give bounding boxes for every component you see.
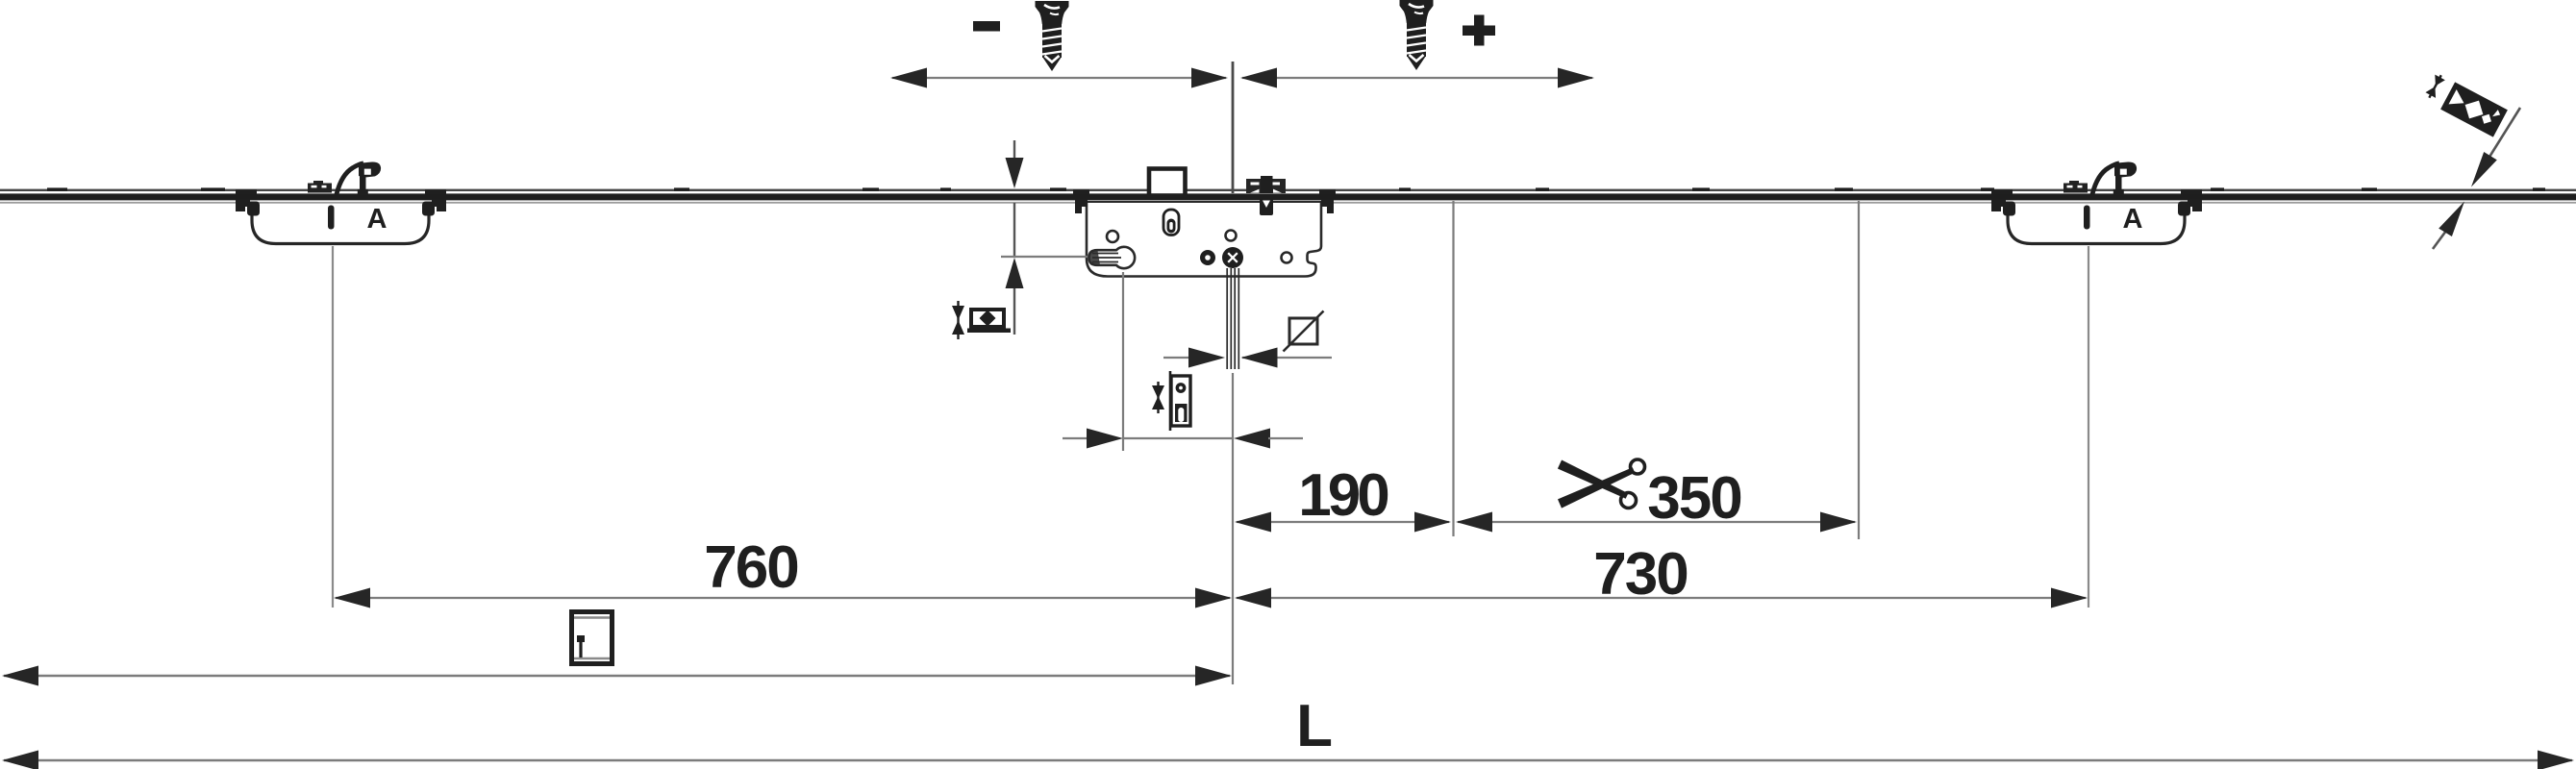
spindle bars xyxy=(1227,268,1238,369)
square tab above rail xyxy=(1149,169,1186,196)
spindle hub xyxy=(1222,247,1243,268)
small hole top-right xyxy=(1226,231,1237,241)
center reference line top xyxy=(1232,62,1235,193)
svg-text:190: 190 xyxy=(1298,462,1388,529)
rail bottom edge line xyxy=(0,202,2576,204)
plus sign xyxy=(1463,15,1495,46)
up arrow to cylinder line xyxy=(1013,203,1015,256)
svg-text:760: 760 xyxy=(704,534,797,601)
cylinder hole xyxy=(1089,247,1136,268)
right claw xyxy=(1321,199,1334,213)
minus sign xyxy=(973,21,1000,32)
rail segment joints xyxy=(47,187,2545,190)
spindle centerline lower xyxy=(1232,373,1234,684)
case outline xyxy=(1087,202,1321,277)
screw right xyxy=(1400,0,1434,70)
svg-text:730: 730 xyxy=(1593,541,1687,608)
ribbed block above rail xyxy=(1246,179,1286,193)
cylinder extension line xyxy=(1122,272,1124,451)
dim line minus xyxy=(892,77,1226,79)
down arrow to rail xyxy=(1013,140,1015,163)
claw nubs above rail xyxy=(1073,189,1089,194)
tab below rail with V notch xyxy=(1260,199,1273,215)
dim line plus xyxy=(1242,77,1592,79)
inner slot xyxy=(1163,210,1179,236)
cylinder center extension line xyxy=(1001,256,1088,258)
case top edge xyxy=(1087,201,1321,203)
rail thin top line xyxy=(0,189,2576,191)
small hole right xyxy=(1282,253,1292,263)
left claw xyxy=(1075,199,1088,213)
screw left xyxy=(1036,1,1069,71)
diagonal dim lower xyxy=(2433,231,2446,249)
svg-text:350: 350 xyxy=(1647,465,1740,532)
extension lines xyxy=(1452,201,1454,536)
dark ring hole xyxy=(1200,250,1215,265)
svg-text:L: L xyxy=(1296,693,1333,759)
rail thick bar xyxy=(0,193,2576,200)
diagonal dim upper xyxy=(2487,108,2520,161)
small hole top-left xyxy=(1107,231,1118,242)
